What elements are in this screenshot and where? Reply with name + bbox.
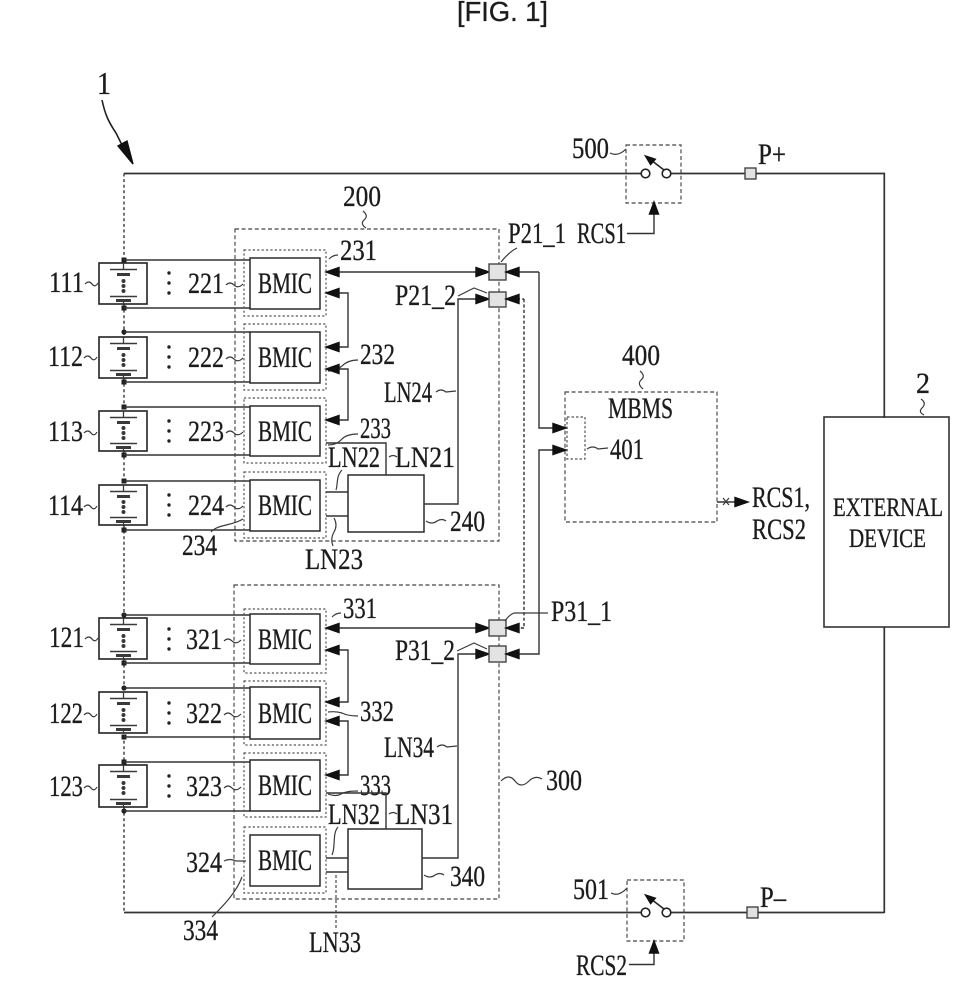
leader 113 xyxy=(84,431,97,435)
leader 401 xyxy=(587,447,608,449)
port P21_2 xyxy=(489,292,506,307)
label 123 xyxy=(49,770,83,803)
BMIC U324 xyxy=(244,827,326,893)
leader arrow from 1 to pack corner xyxy=(102,100,133,164)
svg-text:114: 114 xyxy=(48,489,83,522)
wire battery 122 top sense xyxy=(124,687,250,689)
leader 300 xyxy=(501,777,542,785)
node junction xyxy=(122,661,127,666)
label P31_2 xyxy=(395,634,455,667)
BMIC U224 xyxy=(244,472,326,538)
battery module 112 xyxy=(99,337,147,378)
leader P21_2 xyxy=(458,288,487,296)
label 1 xyxy=(97,65,111,101)
label 501 xyxy=(573,873,609,906)
MBMS box 400 xyxy=(565,392,717,522)
label LN21 xyxy=(395,441,455,474)
wire LN23 BMIC224 to 240 xyxy=(326,515,348,517)
wire LN22 BMIC224 to 240 xyxy=(326,491,348,493)
svg-text:300: 300 xyxy=(546,764,582,797)
wire LN24 240 to P21_2 xyxy=(424,295,489,505)
wire BMIC321 to P31_1 xyxy=(326,624,489,633)
svg-text:2: 2 xyxy=(916,367,930,400)
leader P21_1 xyxy=(501,248,517,262)
leader 232 xyxy=(328,360,358,371)
svg-text:P+: P+ xyxy=(758,138,786,171)
svg-text:LN24: LN24 xyxy=(384,376,432,409)
wire RCS1 to switch 500 xyxy=(627,202,659,234)
label LN23 xyxy=(305,543,363,576)
leader 400 xyxy=(639,371,643,389)
svg-text:221: 221 xyxy=(188,267,224,300)
wire battery 111 top sense xyxy=(124,259,250,261)
label 224 xyxy=(167,489,224,522)
BMIC U323 xyxy=(244,753,326,817)
svg-text:LN23: LN23 xyxy=(305,543,363,576)
leader 500 xyxy=(610,149,626,154)
wire chain BMIC221-BMIC222 xyxy=(326,289,348,352)
svg-text:P21_2: P21_2 xyxy=(395,279,456,312)
node junction xyxy=(122,453,127,458)
label LN22 xyxy=(328,441,380,474)
battery module 121 xyxy=(99,618,147,659)
node junction xyxy=(122,735,127,740)
leader 2 xyxy=(920,399,924,415)
leader 340 xyxy=(424,874,444,878)
battery module 122 xyxy=(99,692,147,733)
leader 231 xyxy=(329,255,338,259)
wire battery 113 bottom sense xyxy=(124,454,250,456)
leader 221 xyxy=(226,283,243,287)
label LN34 xyxy=(384,731,434,764)
label 401 xyxy=(610,433,644,466)
label LN31 xyxy=(395,798,453,831)
port P31_2 xyxy=(489,646,506,662)
svg-text:RCS1: RCS1 xyxy=(577,217,626,250)
node junction xyxy=(121,685,126,690)
wire battery 121 bottom sense xyxy=(124,662,250,664)
label 323 xyxy=(167,770,222,803)
node junction xyxy=(122,306,127,311)
svg-text:MBMS: MBMS xyxy=(608,392,673,425)
svg-text:321: 321 xyxy=(186,623,222,656)
wire xyxy=(671,912,747,914)
node junction xyxy=(122,258,127,263)
svg-text:240: 240 xyxy=(450,505,485,538)
label RCS2 control xyxy=(576,949,627,982)
wire battery 111 bottom sense xyxy=(124,307,250,309)
node junction xyxy=(122,405,127,410)
wire MBMS port 401 to P31_2 xyxy=(506,446,566,659)
svg-text:BMIC: BMIC xyxy=(258,415,312,448)
label 240 xyxy=(450,505,485,538)
svg-text:340: 340 xyxy=(450,860,485,893)
leader 233 xyxy=(328,434,358,445)
wire LN21 BMIC223 to 240 xyxy=(326,443,386,475)
leader 501 xyxy=(611,888,627,894)
svg-text:LN22: LN22 xyxy=(328,441,380,474)
wire battery 114 top sense xyxy=(124,480,250,482)
label 234 xyxy=(182,529,217,562)
svg-text:401: 401 xyxy=(610,433,644,466)
wire battery 112 top sense xyxy=(124,331,250,333)
svg-text:322: 322 xyxy=(186,697,222,730)
CMU 240 xyxy=(348,475,424,532)
node P+ xyxy=(745,138,786,179)
svg-text:P31_2: P31_2 xyxy=(395,634,455,667)
BMIC U221 xyxy=(244,250,326,316)
node junction xyxy=(121,612,126,617)
wire battery 123 top sense xyxy=(124,761,250,763)
leader 334 xyxy=(212,877,242,917)
svg-text:112: 112 xyxy=(48,340,83,373)
label 322 xyxy=(167,697,222,730)
node junction xyxy=(122,380,127,385)
svg-text:RCS2: RCS2 xyxy=(576,949,627,982)
wire chain BMIC321-BMIC322 xyxy=(326,646,348,707)
label LN24 xyxy=(384,376,432,409)
label 231 xyxy=(340,234,377,267)
svg-text:231: 231 xyxy=(340,234,377,267)
label 113 xyxy=(48,415,83,448)
svg-text:123: 123 xyxy=(49,770,83,803)
svg-text:LN32: LN32 xyxy=(328,798,380,831)
leader 331 xyxy=(332,613,341,617)
label P21_1 xyxy=(508,217,566,250)
svg-text:LN34: LN34 xyxy=(384,731,434,764)
wire chain BMIC222-BMIC223 xyxy=(326,365,348,425)
leader LN31 xyxy=(389,813,397,815)
label 332 xyxy=(360,695,394,728)
wire LN32 BMIC324 to 340 xyxy=(326,857,348,859)
svg-text:BMIC: BMIC xyxy=(258,341,312,374)
svg-text:BMIC: BMIC xyxy=(258,489,312,522)
label 300 xyxy=(546,764,582,797)
leader P31_1 xyxy=(505,613,548,621)
module 300 box xyxy=(234,585,499,899)
label P21_2 xyxy=(395,279,456,312)
label 333 xyxy=(360,769,391,802)
label 111 xyxy=(49,266,84,299)
svg-text:LN21: LN21 xyxy=(395,441,455,474)
wire P21_2 to P31_1 xyxy=(506,295,524,633)
svg-text:LN33: LN33 xyxy=(309,926,361,959)
leader LN32 xyxy=(332,827,338,855)
leader 224 xyxy=(226,505,243,509)
wire battery 112 bottom sense xyxy=(124,381,250,383)
svg-text:223: 223 xyxy=(188,415,224,448)
svg-text:DEVICE: DEVICE xyxy=(849,524,926,553)
node junction xyxy=(121,808,126,813)
label RCS1,RCS2 output xyxy=(752,481,810,546)
wire left series bus (dashed segments) xyxy=(123,174,125,913)
svg-text:501: 501 xyxy=(573,873,609,906)
label 221 xyxy=(167,267,224,300)
BMIC U223 xyxy=(244,398,326,463)
svg-text:200: 200 xyxy=(343,180,381,213)
svg-text:121: 121 xyxy=(49,621,84,654)
svg-text:RCS2: RCS2 xyxy=(752,513,806,546)
leader LN24 xyxy=(436,390,456,392)
battery module 114 xyxy=(99,485,147,525)
label 2 xyxy=(916,367,930,400)
label 121 xyxy=(49,621,84,654)
leader 333 xyxy=(328,791,358,796)
leader P31_2 xyxy=(457,643,487,651)
wire chain BMIC322-BMIC323 xyxy=(326,717,348,780)
leader 123 xyxy=(84,786,97,790)
BMIC U322 xyxy=(244,681,326,745)
label 400 xyxy=(622,339,660,372)
label 233 xyxy=(360,412,391,445)
wire LN34 340 to P31_2 xyxy=(422,650,489,859)
svg-text:BMIC: BMIC xyxy=(258,623,312,656)
port P21_1 xyxy=(489,264,506,280)
wire xyxy=(758,627,884,913)
svg-text:LN31: LN31 xyxy=(395,798,453,831)
module 200 box xyxy=(235,229,499,541)
svg-text:234: 234 xyxy=(182,529,217,562)
leader LN33 xyxy=(335,874,337,928)
svg-text:334: 334 xyxy=(183,914,218,947)
wire battery 122 bottom sense xyxy=(124,736,250,738)
label 223 xyxy=(167,415,224,448)
battery module 111 xyxy=(99,263,147,304)
port P31_1 xyxy=(489,620,506,636)
label 232 xyxy=(360,338,395,371)
svg-text:BMIC: BMIC xyxy=(258,267,312,300)
leader LN21 xyxy=(389,456,397,458)
switch 501 xyxy=(627,880,684,941)
leader LN22 xyxy=(336,470,342,490)
wire top bus P+ xyxy=(124,173,641,175)
label 200 xyxy=(343,180,381,213)
svg-text:RCS1,: RCS1, xyxy=(752,481,810,514)
svg-text:400: 400 xyxy=(622,339,660,372)
wire MBMS RCS output xyxy=(717,498,748,507)
battery module 123 xyxy=(99,765,147,807)
wire battery 123 bottom sense xyxy=(124,810,250,812)
wire battery 121 top sense xyxy=(124,614,250,616)
label 112 xyxy=(48,340,83,373)
leader 321 xyxy=(224,639,241,643)
svg-text:1: 1 xyxy=(97,65,111,101)
svg-text:[FIG. 1]: [FIG. 1] xyxy=(457,0,548,27)
svg-text:P21_1: P21_1 xyxy=(508,217,566,250)
label 500 xyxy=(572,132,609,165)
svg-text:113: 113 xyxy=(48,415,83,448)
wire RCS2 to switch 501 xyxy=(629,941,659,965)
wire battery 113 top sense xyxy=(124,406,250,408)
svg-text:323: 323 xyxy=(186,770,222,803)
node junction xyxy=(122,528,127,533)
port 401 xyxy=(567,417,585,459)
label P31_1 xyxy=(551,595,612,628)
svg-text:BMIC: BMIC xyxy=(258,697,312,730)
wire xyxy=(671,173,745,175)
svg-text:122: 122 xyxy=(49,697,83,730)
leader LN23 xyxy=(332,518,336,546)
node junction xyxy=(121,329,126,334)
svg-text:224: 224 xyxy=(188,489,224,522)
wire xyxy=(756,174,884,419)
svg-text:EXTERNAL: EXTERNAL xyxy=(833,493,943,522)
node P- xyxy=(747,881,787,918)
leader 121 xyxy=(85,637,98,641)
label RCS1 control xyxy=(577,217,626,250)
label 321 xyxy=(167,623,222,656)
leader 234 xyxy=(211,519,243,532)
leader 322 xyxy=(224,713,241,717)
svg-text:BMIC: BMIC xyxy=(258,769,312,802)
leader 200 xyxy=(362,211,366,228)
external device box 2 xyxy=(824,417,949,627)
wire LN31 BMIC323 to 340 xyxy=(326,793,386,829)
label 331 xyxy=(343,592,377,625)
svg-text:P–: P– xyxy=(760,881,787,914)
svg-text:331: 331 xyxy=(343,592,377,625)
leader LN34 xyxy=(437,745,457,747)
leader 240 xyxy=(426,520,446,524)
node junction xyxy=(122,760,127,765)
svg-text:222: 222 xyxy=(188,341,224,374)
leader 332 xyxy=(328,712,358,716)
svg-text:P31_1: P31_1 xyxy=(551,595,612,628)
BMIC U321 xyxy=(244,609,326,673)
wire LN33 BMIC324 to 340 xyxy=(326,871,348,873)
label 334 xyxy=(183,914,218,947)
label 122 xyxy=(49,697,83,730)
leader 323 xyxy=(224,786,241,790)
svg-text:332: 332 xyxy=(360,695,394,728)
CMU 340 xyxy=(348,829,422,889)
wire P21_1 to MBMS port 401 xyxy=(506,268,566,433)
leader 112 xyxy=(84,356,97,360)
label 340 xyxy=(450,860,485,893)
wire bottom bus P- xyxy=(124,912,641,914)
svg-text:500: 500 xyxy=(572,132,609,165)
svg-text:324: 324 xyxy=(186,846,222,879)
svg-text:BMIC: BMIC xyxy=(258,844,312,877)
leader 111 xyxy=(85,282,98,286)
label LN33 xyxy=(309,926,361,959)
switch 500 xyxy=(626,145,681,203)
node junction xyxy=(122,479,127,484)
leader 222 xyxy=(226,357,243,361)
label 324 xyxy=(186,846,222,879)
label 114 xyxy=(48,489,83,522)
label 222 xyxy=(167,341,224,374)
label LN32 xyxy=(328,798,380,831)
BMIC U222 xyxy=(244,324,326,390)
wire BMIC221 to P21_1 xyxy=(326,268,489,277)
leader 324 xyxy=(224,860,246,862)
leader 223 xyxy=(226,431,243,435)
svg-text:111: 111 xyxy=(49,266,84,299)
wire battery 114 bottom sense xyxy=(124,529,250,531)
leader 114 xyxy=(84,505,97,509)
svg-text:232: 232 xyxy=(360,338,395,371)
leader 122 xyxy=(84,713,97,717)
battery module 113 xyxy=(99,411,147,451)
